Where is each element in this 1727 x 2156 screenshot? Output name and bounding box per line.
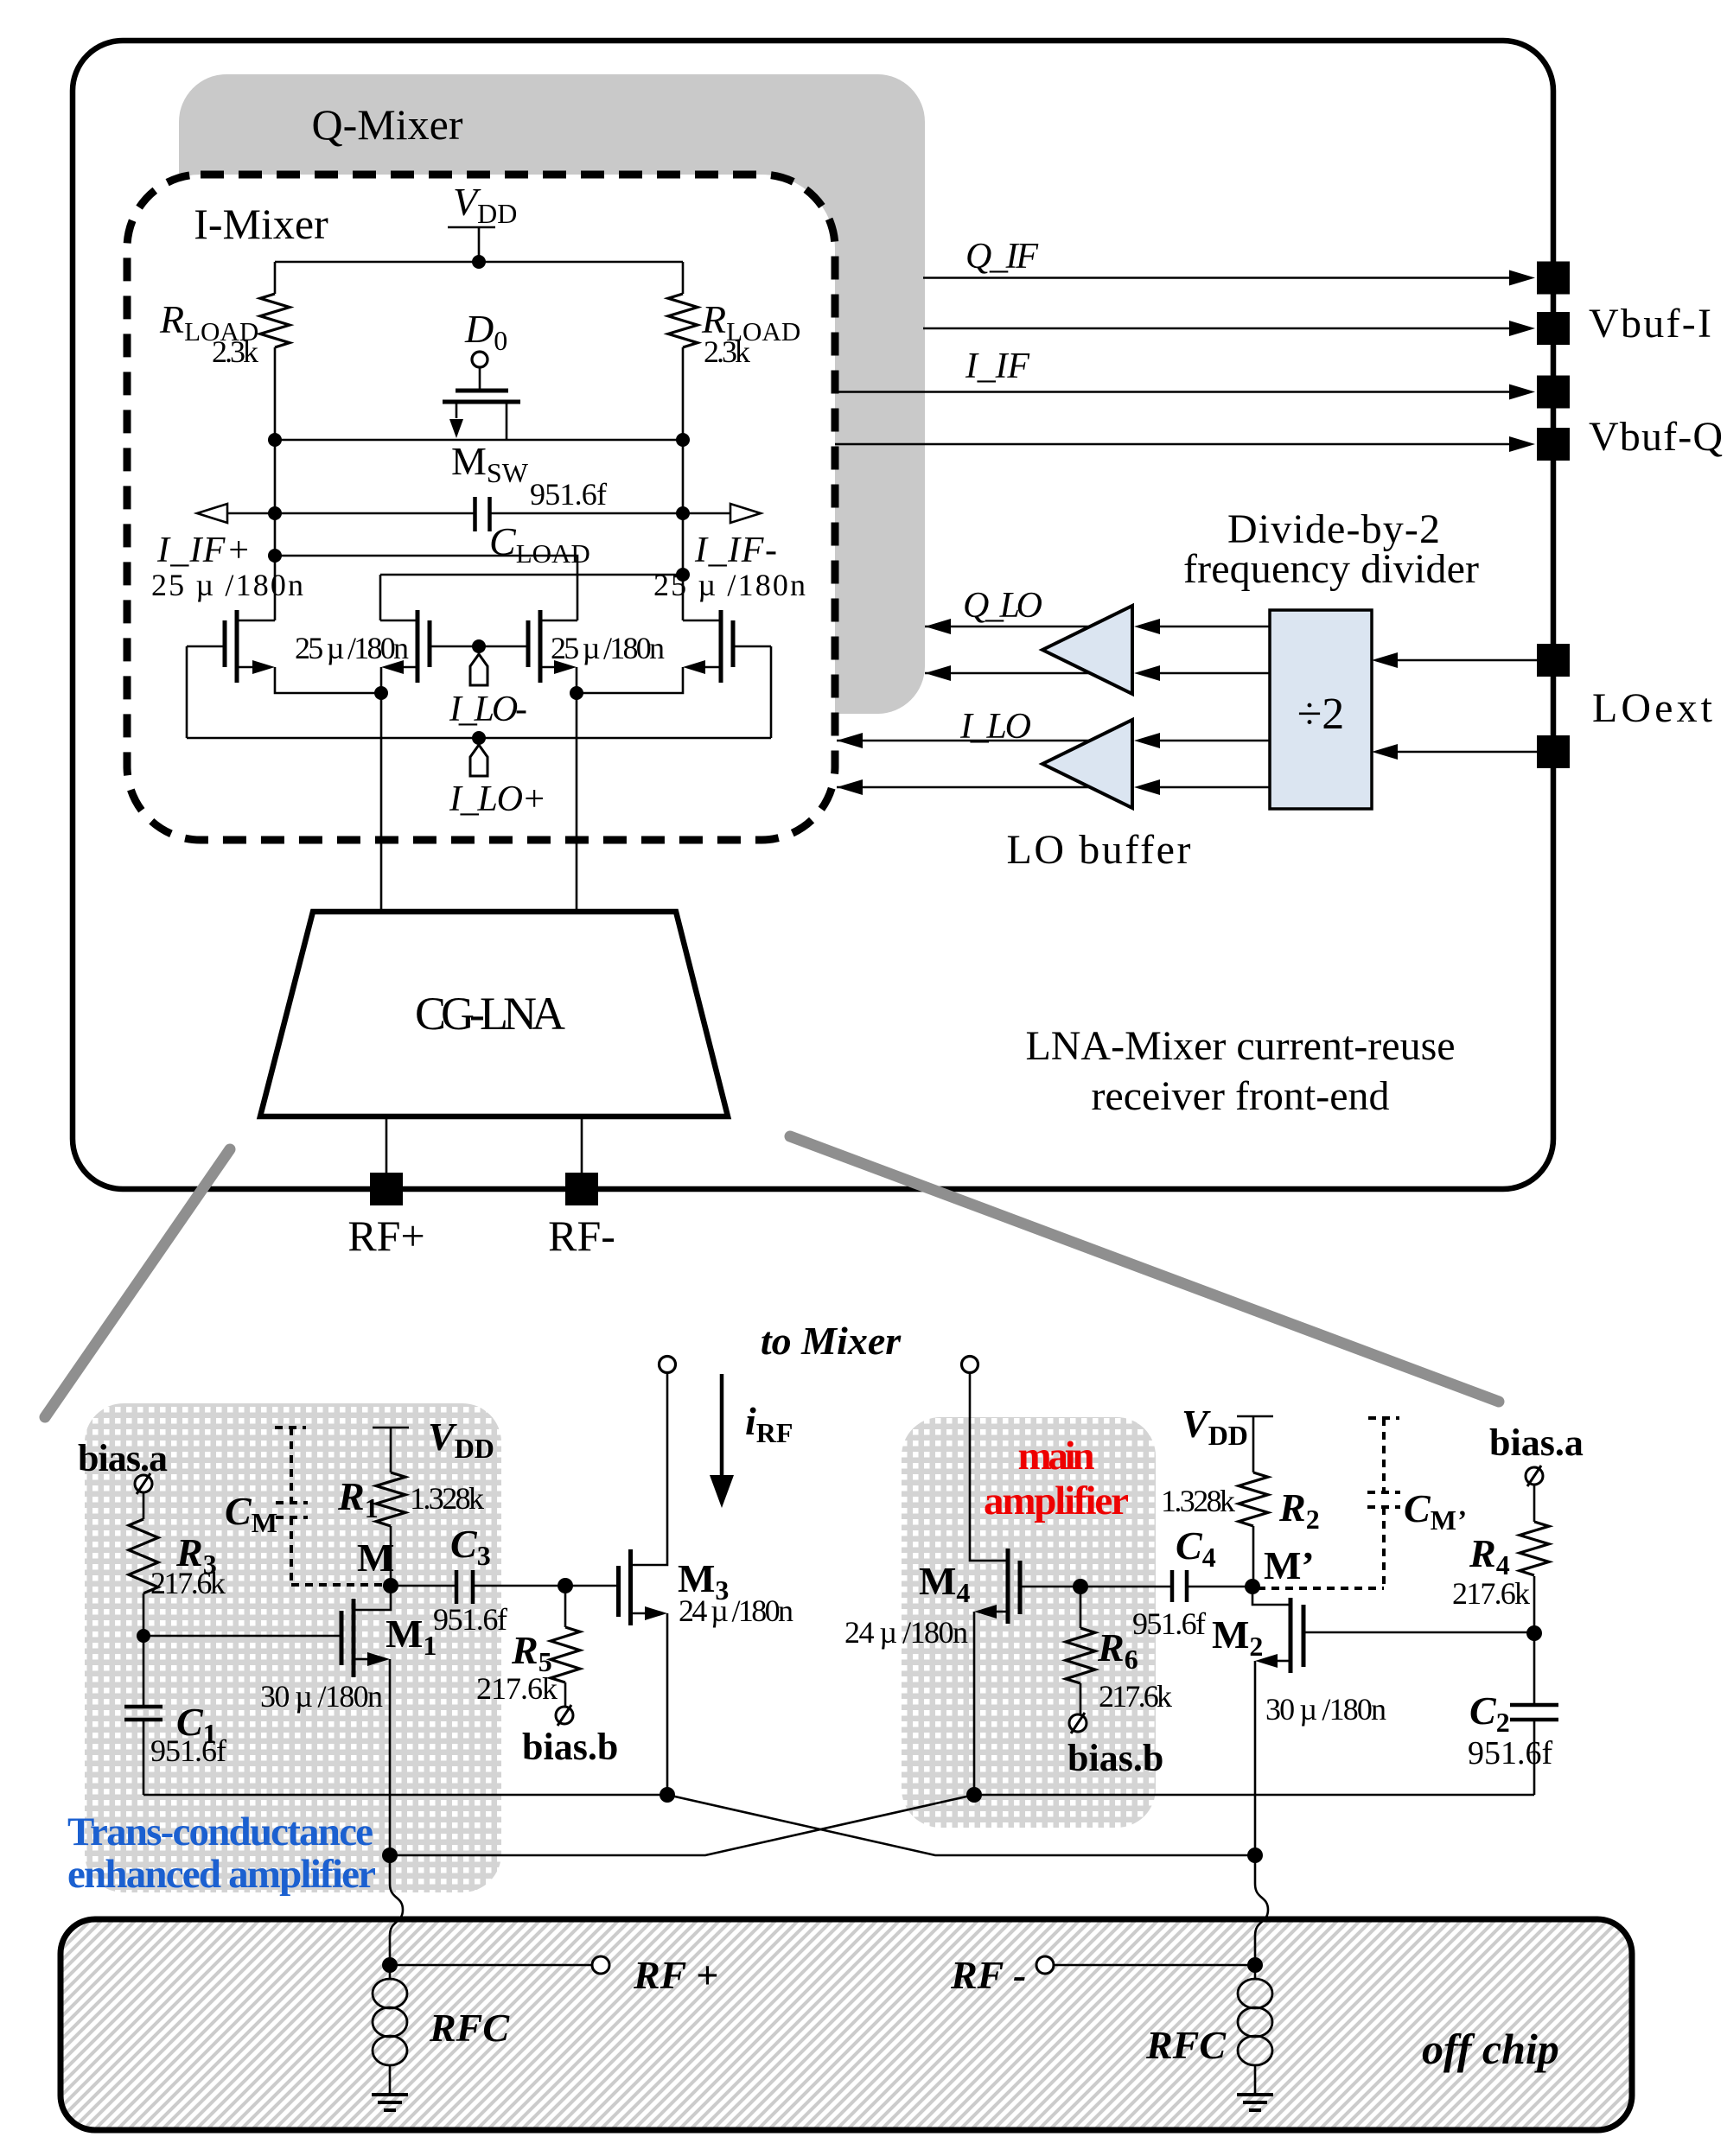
svg-text:951.6f: 951.6f [150, 1733, 226, 1768]
svg-text:Q_IF: Q_IF [965, 237, 1038, 277]
svg-text:951.6f: 951.6f [1468, 1735, 1553, 1771]
svg-text:25 µ /180n: 25 µ /180n [653, 568, 806, 602]
svg-text:RF -: RF - [950, 1953, 1026, 1997]
svg-text:25 µ /180n: 25 µ /180n [151, 568, 303, 602]
svg-text:C4: C4 [1176, 1523, 1216, 1573]
svg-text:I_IF+: I_IF+ [156, 531, 251, 570]
svg-text:951.6f: 951.6f [1132, 1606, 1206, 1641]
svg-text:M’: M’ [1264, 1543, 1315, 1587]
svg-text:off chip: off chip [1422, 2025, 1559, 2073]
svg-text:R5: R5 [511, 1628, 552, 1677]
svg-text:C2: C2 [1469, 1689, 1510, 1738]
svg-text:bias.b: bias.b [1067, 1737, 1163, 1779]
svg-text:VDD: VDD [1182, 1402, 1248, 1451]
svg-text:951.6f: 951.6f [433, 1602, 507, 1637]
svg-text:217.6k: 217.6k [150, 1566, 226, 1600]
svg-text:LNA-Mixer current-reuse: LNA-Mixer current-reuse [1025, 1023, 1455, 1069]
svg-text:to Mixer: to Mixer [761, 1319, 902, 1363]
svg-text:RF+: RF+ [347, 1212, 424, 1260]
svg-text:951.6f: 951.6f [530, 477, 607, 512]
svg-text:25 µ /180n: 25 µ /180n [295, 631, 409, 665]
svg-text:enhanced amplifier: enhanced amplifier [67, 1852, 376, 1897]
svg-text:30 µ /180n: 30 µ /180n [260, 1679, 383, 1714]
svg-text:M2: M2 [1212, 1612, 1263, 1662]
svg-text:217.6k: 217.6k [476, 1671, 558, 1706]
svg-text:÷2: ÷2 [1297, 690, 1345, 739]
svg-text:LOext: LOext [1592, 685, 1713, 731]
svg-text:R4: R4 [1469, 1531, 1510, 1580]
svg-text:CG-LNA: CG-LNA [415, 988, 565, 1040]
svg-text:iRF: iRF [745, 1399, 793, 1448]
svg-text:Q_LO: Q_LO [963, 586, 1042, 626]
svg-text:LO buffer: LO buffer [1007, 827, 1191, 873]
svg-text:1.328k: 1.328k [1161, 1484, 1235, 1518]
svg-text:25 µ /180n: 25 µ /180n [551, 631, 665, 665]
svg-text:receiver front-end: receiver front-end [1091, 1073, 1389, 1119]
svg-text:2.3k: 2.3k [212, 334, 258, 369]
svg-text:I_IF: I_IF [965, 347, 1029, 386]
svg-text:bias.b: bias.b [522, 1726, 618, 1768]
svg-text:30 µ /180n: 30 µ /180n [1265, 1692, 1386, 1727]
svg-text:M: M [357, 1536, 394, 1580]
svg-text:Vbuf-Q: Vbuf-Q [1589, 414, 1723, 460]
svg-text:1.328k: 1.328k [410, 1481, 484, 1516]
svg-text:RFC: RFC [1145, 2023, 1227, 2067]
svg-text:Trans-conductance: Trans-conductance [67, 1809, 373, 1854]
svg-text:Vbuf-I: Vbuf-I [1589, 301, 1711, 347]
svg-text:RFC: RFC [429, 2006, 510, 2050]
svg-text:RF-: RF- [548, 1212, 615, 1260]
svg-text:I_LO+: I_LO+ [449, 779, 546, 819]
svg-text:I-Mixer: I-Mixer [194, 200, 328, 248]
svg-text:RF +: RF + [633, 1953, 718, 1997]
svg-text:main: main [1018, 1434, 1095, 1479]
svg-text:2.3k: 2.3k [704, 334, 750, 369]
svg-text:I_LO: I_LO [959, 707, 1031, 747]
svg-text:I_LO-: I_LO- [449, 690, 527, 729]
svg-text:24 µ /180n: 24 µ /180n [844, 1615, 968, 1650]
svg-text:24 µ /180n: 24 µ /180n [679, 1593, 793, 1628]
svg-text:CM’: CM’ [1404, 1486, 1466, 1536]
svg-text:amplifier: amplifier [984, 1479, 1129, 1523]
svg-text:217.6k: 217.6k [1099, 1679, 1172, 1714]
svg-text:Q-Mixer: Q-Mixer [312, 100, 463, 149]
svg-text:I_IF-: I_IF- [694, 531, 777, 570]
svg-text:R2: R2 [1278, 1485, 1320, 1535]
svg-text:217.6k: 217.6k [1452, 1576, 1530, 1611]
svg-text:frequency divider: frequency divider [1183, 546, 1479, 592]
svg-text:bias.a: bias.a [1489, 1421, 1584, 1464]
svg-text:bias.a: bias.a [78, 1437, 168, 1479]
